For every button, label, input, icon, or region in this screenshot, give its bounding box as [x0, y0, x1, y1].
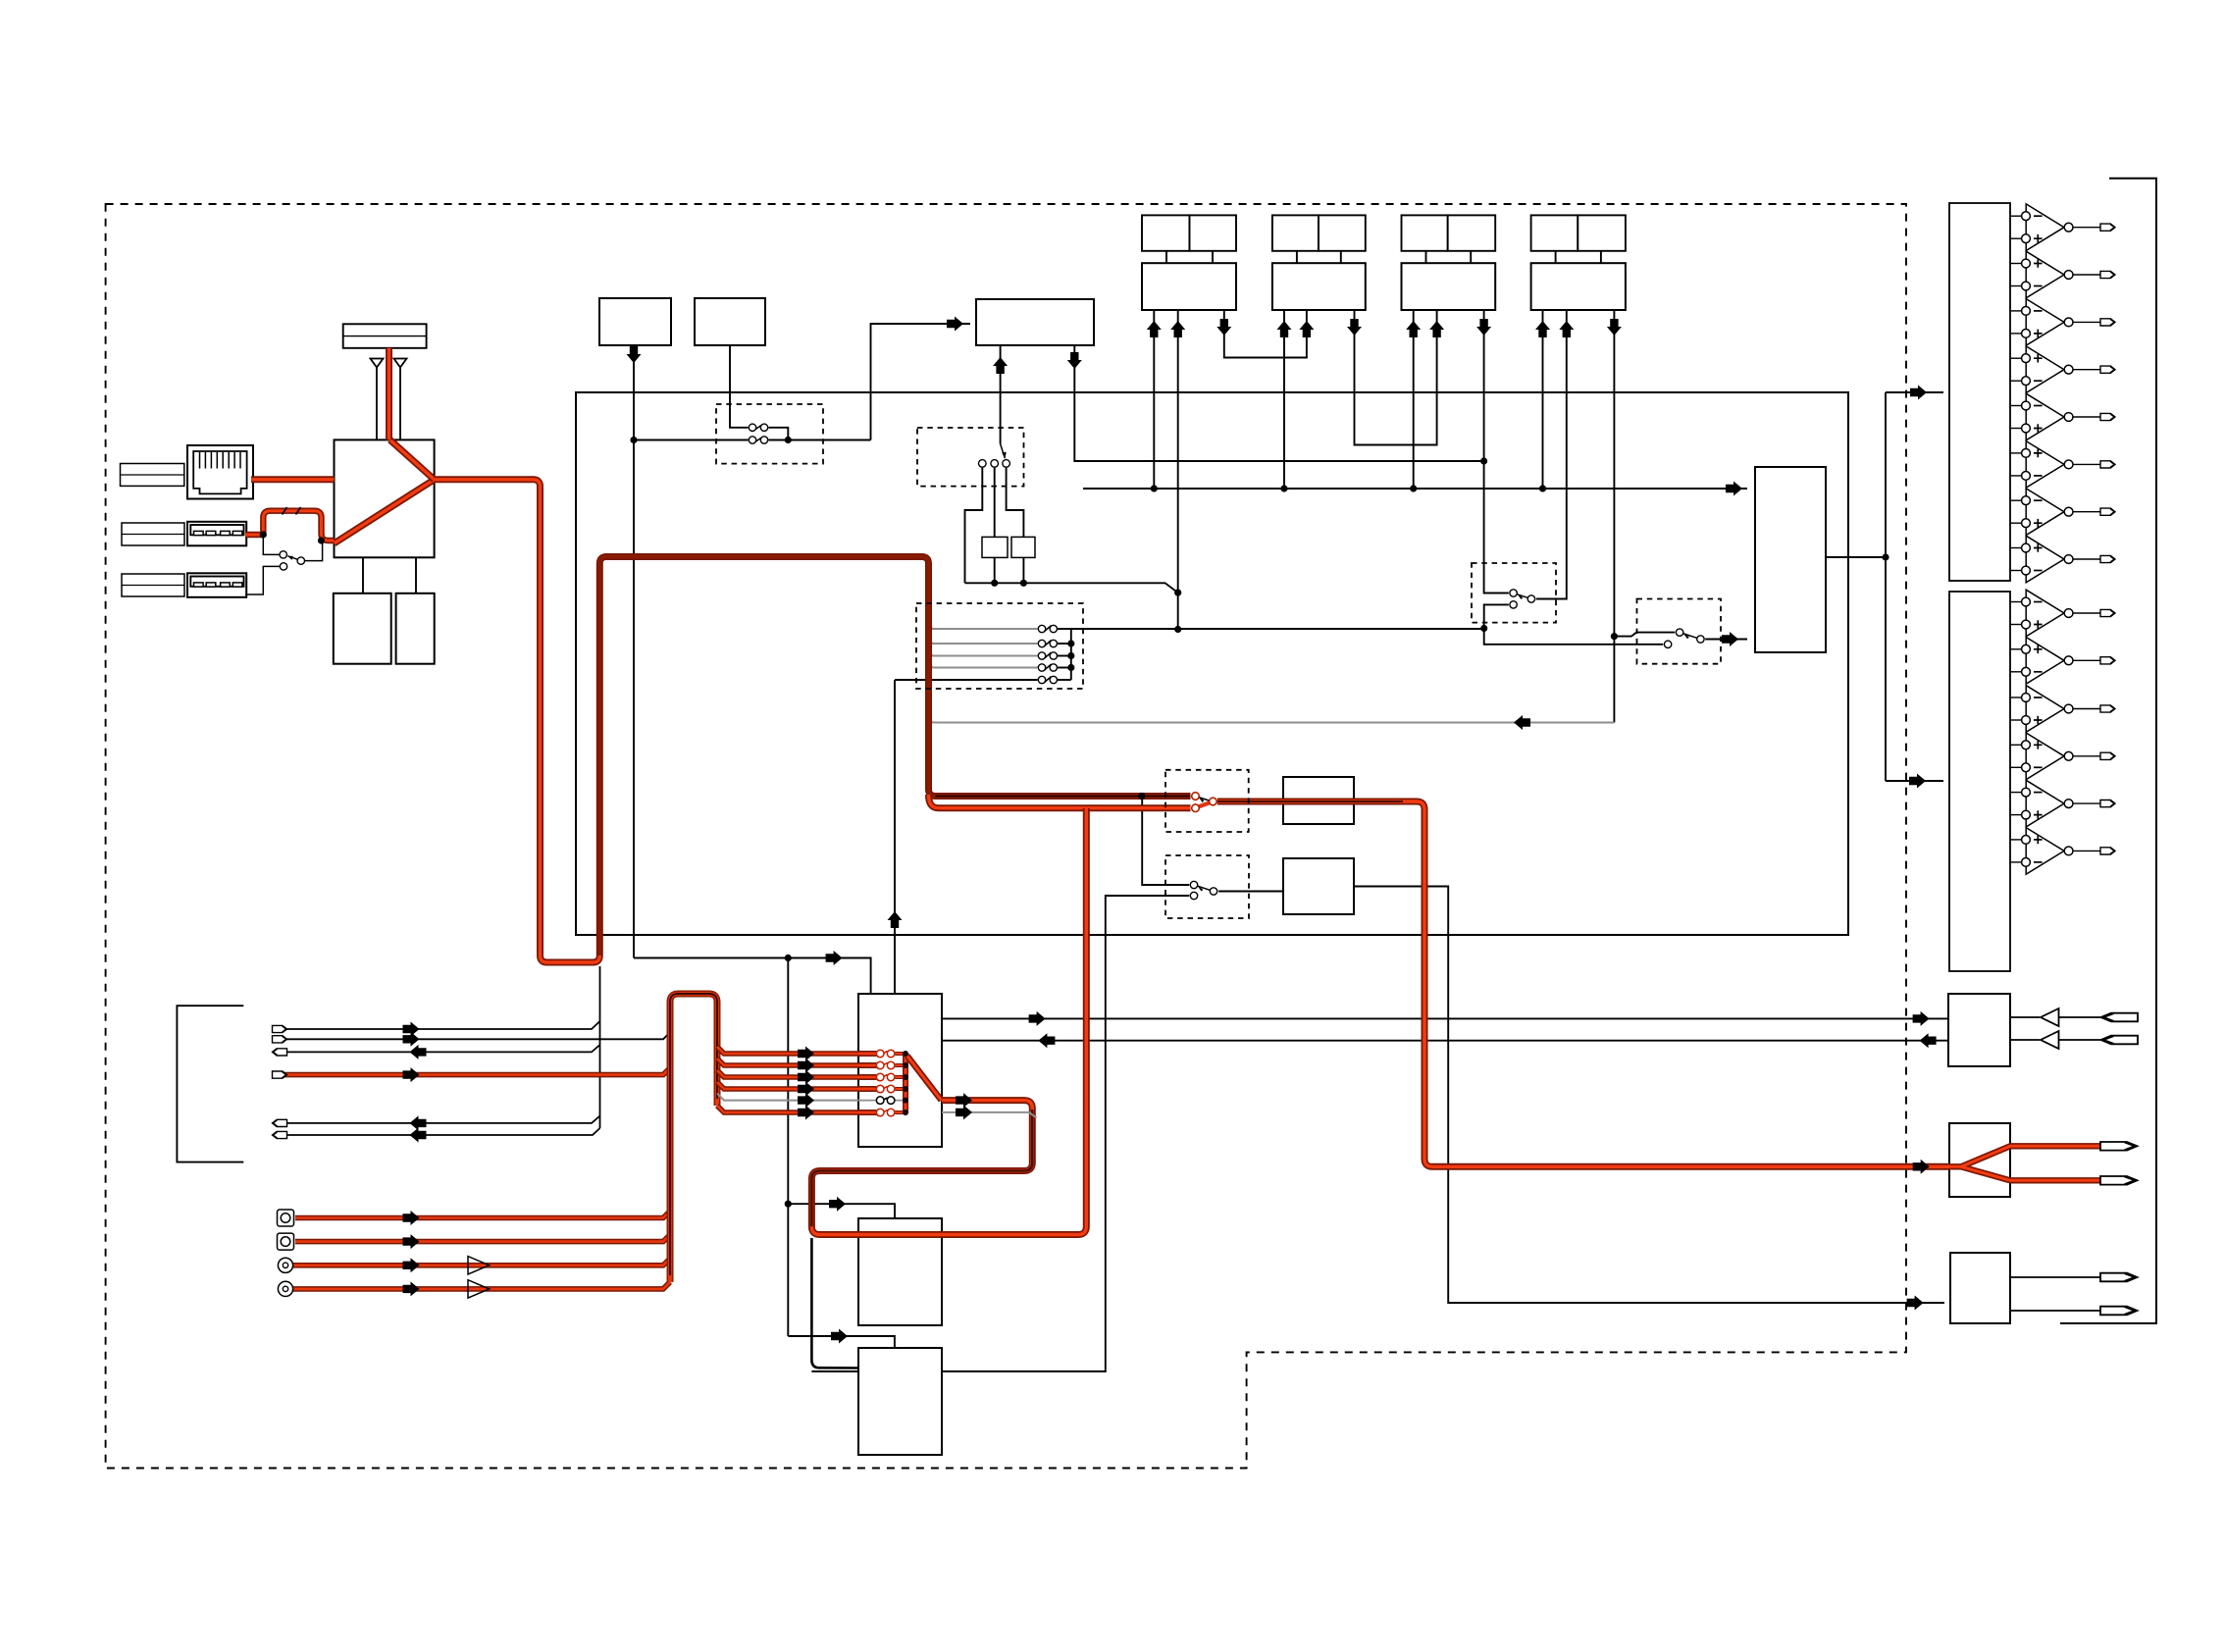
wire U16 feed [788, 1336, 895, 1348]
wire SB1 pole2 to bus [1484, 604, 1509, 628]
dashed S9 box [1165, 770, 1249, 832]
input flags TRS [273, 1025, 287, 1138]
op-amp A3 [2010, 299, 2115, 346]
jack group bracket [177, 1006, 243, 1162]
wire tap gray feed [929, 719, 1615, 723]
wire U17 U18 outputs to bus [994, 557, 996, 583]
wire U14 feed header [634, 958, 871, 995]
switch S6 [1664, 629, 1704, 648]
switch S21 [1038, 625, 1057, 632]
switch S22 [1038, 640, 1057, 646]
wire bus vertical [1070, 629, 1072, 680]
cable branch row2 [717, 1058, 858, 1065]
wire CH1 line1 [1153, 310, 1155, 489]
wire S8 pole C to USB2 [245, 566, 280, 594]
codec bank CH1 [1142, 215, 1236, 310]
switch S14 mixer row [858, 1085, 908, 1093]
wire U7 out B to SB1 [1074, 345, 1483, 461]
block U13 aux out [1950, 1253, 2010, 1323]
block U16 [858, 1348, 942, 1455]
wire SB4 common to U20 [1218, 891, 1283, 893]
op-amp B1 [2010, 590, 2115, 637]
dashed S4 box [917, 428, 1024, 487]
label plate P3 [122, 574, 184, 596]
wire jack trunk [599, 966, 601, 1128]
wire CH3 down to SB1 pole [1484, 310, 1509, 594]
connector J1 RJ45 jack [187, 445, 253, 499]
wire red trunk bright [435, 480, 600, 962]
wire TRS row1 [282, 1021, 600, 1029]
connector J4 RCA [278, 1210, 294, 1226]
switch S25 [1038, 676, 1057, 683]
cable branch row6 [717, 1106, 858, 1112]
block U2 main router [335, 439, 435, 557]
wire U1sw pole B drop [994, 468, 996, 538]
block U19 [1283, 777, 1354, 824]
wire CH1 to CH2 link [1224, 310, 1307, 358]
op-amp B5 [2010, 780, 2115, 827]
right bracket rail [2060, 179, 2156, 1323]
switch S13 mixer row [858, 1073, 908, 1081]
wire SB4 pole1 drop [1142, 797, 1189, 886]
wire red fan diag lower [335, 480, 435, 543]
wire U8 out to DAC feed [1826, 556, 1886, 558]
wire DAC feed vertical [1885, 392, 1887, 781]
wire U5 down trunk [633, 345, 635, 958]
wire switch row5 [895, 679, 1038, 681]
op-amp B3 [2010, 686, 2115, 733]
switch S3a [749, 424, 767, 431]
output flags phones [2100, 1142, 2138, 1185]
wire CH4 line3 down [1613, 310, 1615, 723]
codec bank CH2 [1272, 215, 1366, 310]
wire monitor send [942, 1017, 1948, 1019]
wire RCA row A join [295, 1212, 670, 1218]
switch S9 source select [1192, 793, 1217, 812]
op-amp A6 [2010, 441, 2115, 489]
antenna ANT1 [371, 359, 384, 440]
wire bus Y [965, 583, 1178, 593]
wire TRS row5 [282, 1116, 600, 1123]
wire selector bus [1071, 628, 1484, 630]
connector J7 phono [278, 1281, 292, 1296]
wire U7 out A [1000, 345, 1002, 444]
antenna ANT2 [394, 359, 407, 440]
op-amp A4 [2010, 346, 2115, 393]
wire phono row D join [293, 1282, 670, 1289]
wire red LAN feed [251, 476, 335, 483]
wire switch row S2b [634, 439, 749, 441]
wire red monitor trunk [1217, 801, 1949, 1166]
block U4 [396, 594, 435, 664]
wire U14 up to bus [894, 680, 896, 994]
flow arrows [403, 317, 1937, 1344]
wire SB2 pole2 line [1484, 629, 1664, 645]
block U3 [334, 594, 391, 664]
wire gray mix out [942, 1112, 1037, 1118]
block U1 antenna module [343, 324, 427, 348]
cable branch row1 [717, 1047, 858, 1054]
wire red return loop [811, 808, 1086, 1235]
switch S24 [1038, 664, 1057, 671]
cable branch row3 [717, 1070, 858, 1077]
wire main bus [1083, 488, 1747, 490]
cable branch row4 [717, 1082, 858, 1089]
wire to DAC A [1886, 391, 1943, 393]
wire U6 to S2a [730, 345, 749, 428]
wire U11 monitor rows [2010, 1016, 2040, 1018]
block U5 [599, 298, 671, 345]
op-amp A2 [2010, 251, 2115, 298]
switch S15 mixer row [858, 1097, 908, 1105]
preamp T4 [468, 1280, 490, 1298]
wire SB2 pole1 feed [1614, 633, 1675, 637]
ferrite bead F1 [283, 507, 301, 515]
wire red antenna drop [386, 348, 392, 440]
block U6 [695, 298, 765, 345]
preamp T3 [468, 1257, 490, 1274]
label plate P2 [122, 523, 184, 545]
cable branch row5 gray [717, 1094, 858, 1101]
wire feed drop [787, 958, 789, 1337]
block U10 DAC bank B [1949, 592, 2010, 971]
wire CH4 line1 [1542, 310, 1544, 489]
switch S3b [749, 437, 767, 443]
dashed S5 box [1472, 563, 1556, 623]
wire U1sw pole C bracket [1007, 468, 1024, 538]
wire gray switch row1 [929, 625, 1038, 629]
switch S23 [1038, 652, 1057, 659]
wire CH3 line1 [1413, 310, 1415, 489]
op-amp A8 [2010, 536, 2115, 583]
connector J5 RCA [278, 1233, 294, 1250]
block U7 clock [976, 299, 1094, 345]
wire S2 to U7 [871, 324, 971, 440]
mixer red diagonal [907, 1056, 942, 1101]
codec bank CH3 [1402, 215, 1496, 310]
dashed S3 box [716, 404, 823, 464]
wire CH2 to CH3 link [1355, 310, 1437, 445]
block U11 monitor out [1948, 994, 2010, 1066]
switch S4 clock select [979, 444, 1010, 468]
switch S7 [1190, 881, 1216, 899]
wire dark drop to U16 [811, 1238, 858, 1368]
buffer T2 [2041, 1031, 2059, 1049]
wire CH1 line2 [1177, 310, 1179, 630]
switch S12 mixer row [858, 1061, 908, 1069]
wire U16 left stub [811, 1370, 858, 1372]
block U9 DAC bank A [1949, 203, 2010, 581]
wire U2 sub links [362, 557, 364, 594]
wire switch out segments [1058, 628, 1071, 630]
output flags aux [2100, 1273, 2138, 1316]
block U14 input selector [858, 994, 942, 1147]
op-amp A7 [2010, 489, 2115, 536]
wire RCA row B join [295, 1235, 670, 1242]
wire gray switch row2 [929, 640, 1038, 644]
wire to DAC B [1886, 780, 1943, 782]
wire U20 out to aux [1354, 887, 1944, 1304]
label plate P1 [121, 464, 184, 487]
mixer red bus [903, 1054, 908, 1112]
wire monitor return [942, 1040, 1948, 1042]
wire red trunk dark [599, 557, 1190, 956]
wire U1sw pole A bracket [965, 468, 983, 584]
outer dashed enclosure [106, 204, 1906, 1469]
wire TRS row2 to cable [282, 1032, 670, 1039]
op-amp A5 [2010, 393, 2115, 440]
switch S16 mixer row [858, 1109, 908, 1116]
op-amp B2 [2010, 638, 2115, 685]
switch S11 mixer row [858, 1050, 908, 1058]
wire gray switch row3 [929, 652, 1038, 656]
wire CH2 line1 [1283, 310, 1285, 489]
block U8 router [1755, 467, 1826, 652]
connector J2 USB port [187, 522, 246, 546]
switch S5 [1510, 590, 1535, 608]
block U15 [858, 1218, 942, 1325]
op-amp B6 [2010, 828, 2115, 875]
wire SB4 pole2 line [942, 896, 1189, 1371]
dashed S7 box [1165, 855, 1249, 918]
block U20 [1283, 858, 1354, 914]
wire S8 pole A [263, 535, 280, 554]
wire red USB link [245, 511, 335, 541]
wire S8 common [305, 543, 323, 561]
wire S2a common drop [769, 428, 789, 440]
op-amp B4 [2010, 733, 2115, 780]
wire red headphone split [1949, 1146, 2100, 1180]
wire SB2 common out [1705, 639, 1747, 641]
wire gray switch row4 [929, 664, 1038, 668]
codec bank CH4 [1531, 215, 1626, 310]
connector J6 phono [278, 1258, 292, 1272]
op-amp A1 [2010, 204, 2115, 251]
output flags monitor [2101, 1013, 2139, 1045]
buffer T1 [2041, 1008, 2059, 1026]
block U17 [982, 537, 1008, 557]
block U12 phones amp [1949, 1123, 2010, 1197]
connector J3 USB port [187, 573, 246, 597]
wire TRS row6 [282, 1128, 600, 1135]
wire red lower pole branch [929, 795, 1191, 808]
wire TRS row3 [282, 1045, 600, 1052]
block U18 [1011, 537, 1035, 557]
wire SB1 common up to CH4 [1536, 310, 1567, 599]
switch S8 [280, 551, 304, 570]
dashed S2 bank box [916, 603, 1083, 689]
cable trunk W1 [670, 994, 717, 1282]
wire phono row C join [293, 1259, 670, 1265]
wire TRS aux row join [282, 1068, 670, 1075]
dashed S6 box [1637, 599, 1722, 664]
wire red fan diag upper [390, 439, 435, 479]
wire U13 outputs [2010, 1276, 2100, 1278]
wire U15 feed [788, 1204, 895, 1218]
big mixed-signal boundary rectangle [576, 392, 1848, 935]
